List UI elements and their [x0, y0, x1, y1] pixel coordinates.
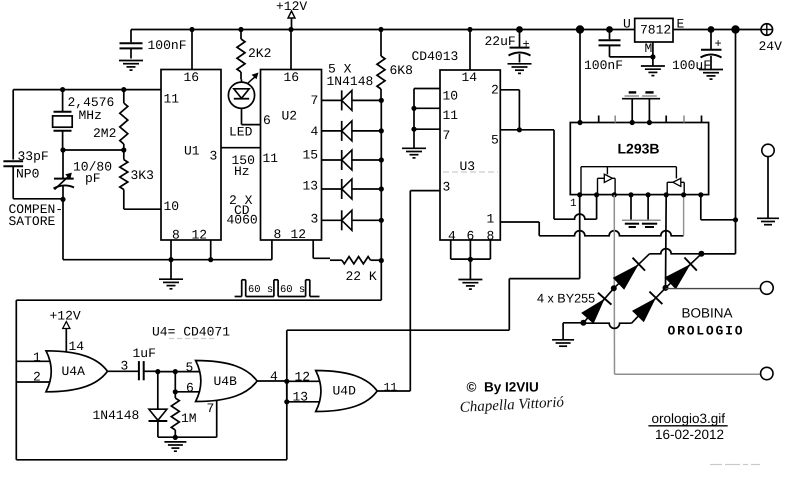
resistor R1 2M2	[123, 90, 125, 103]
trimmer capacitor CV1 10/80pF	[62, 150, 64, 179]
svg-text:2: 2	[491, 83, 499, 98]
svg-text:14: 14	[69, 339, 85, 354]
svg-text:6: 6	[263, 113, 271, 128]
IC 7812 regulator box	[635, 18, 673, 42]
wire U4A output	[108, 370, 139, 372]
junction bridge node B	[663, 285, 669, 291]
svg-text:1: 1	[487, 212, 495, 227]
svg-text:NP0: NP0	[16, 167, 39, 182]
capacitor C1 100nF	[130, 30, 132, 43]
ground (bridge)	[552, 339, 574, 341]
svg-text:6: 6	[186, 381, 194, 396]
pin stub L293B top (gray)	[614, 116, 616, 123]
svg-text:22uF: 22uF	[485, 34, 516, 49]
waveform 60s pulses	[235, 296, 242, 298]
L293B internal wiring	[581, 166, 676, 168]
svg-text:4: 4	[448, 229, 456, 244]
diode D5 1N4148	[322, 188, 342, 190]
wire 33pF bottom to trimmer bottom	[13, 198, 63, 200]
svg-text:U4= CD4071: U4= CD4071	[152, 325, 230, 340]
wire L293B pin1 input route	[579, 195, 581, 279]
svg-text:8: 8	[274, 227, 282, 242]
svg-text:BOBINA: BOBINA	[682, 306, 733, 321]
svg-text:100nF: 100nF	[148, 38, 187, 53]
svg-text:16: 16	[184, 70, 200, 85]
wire diode column	[380, 100, 382, 260]
wire bridge node A to terminal (gray)	[615, 373, 761, 375]
svg-text:orologio3.gif: orologio3.gif	[652, 411, 726, 426]
ground (C3)	[508, 63, 532, 65]
ground (bus)	[170, 260, 172, 279]
wire U4A pin2 lead	[15, 361, 17, 460]
wire 7812 M pin	[652, 42, 654, 66]
wire 3K3 to U1 pin10	[124, 208, 161, 210]
node B wire (crystal bottom row)	[63, 149, 124, 151]
svg-text:1: 1	[33, 350, 41, 365]
svg-text:11: 11	[384, 382, 398, 395]
junction C6 out	[155, 369, 160, 374]
or-gate U4B	[196, 361, 258, 402]
svg-text:60 s: 60 s	[280, 284, 305, 296]
svg-text:3: 3	[443, 180, 451, 195]
crystal X1 2,4576MHz	[62, 90, 64, 112]
svg-text:pF: pF	[85, 171, 101, 186]
svg-text:10: 10	[443, 89, 459, 104]
diode D4 1N4148	[322, 159, 342, 161]
svg-text:16: 16	[284, 70, 300, 85]
svg-text:1N4148: 1N4148	[327, 74, 374, 89]
ground (U3 bottom)	[469, 259, 471, 278]
wire U1 pin16 to +12V	[191, 30, 193, 70]
svg-text:1: 1	[570, 198, 577, 210]
svg-text:Hz: Hz	[234, 164, 250, 179]
svg-text:10: 10	[164, 199, 180, 214]
wire U4B output	[257, 380, 287, 382]
svg-text:3: 3	[311, 212, 319, 227]
svg-text:60 s: 60 s	[248, 284, 273, 296]
capacitor C5 100uF	[708, 26, 715, 33]
svg-text:2M2: 2M2	[93, 126, 116, 141]
svg-text:11: 11	[263, 151, 279, 166]
svg-text:4: 4	[311, 124, 319, 139]
wire L293B out to bridge node B	[665, 195, 668, 288]
or-gate U4D	[316, 371, 378, 412]
diode D2 1N4148	[322, 99, 342, 101]
underline orologio3.gif	[648, 425, 727, 427]
wire U4A pin1 lead	[15, 300, 17, 361]
double ground below L293B	[622, 219, 661, 221]
ground (C1)	[119, 60, 143, 62]
svg-text:12: 12	[192, 228, 208, 243]
diode D7 BY255	[583, 288, 613, 323]
wire node B to terminal	[665, 287, 667, 290]
svg-text:SATORE: SATORE	[9, 214, 56, 229]
resistor R4 6K8	[380, 30, 382, 57]
capacitor C4 100nF	[606, 26, 613, 33]
gray dashes bottom right	[710, 464, 722, 466]
svg-text:4: 4	[270, 369, 278, 384]
wire U3 pin3 to U4D output	[410, 190, 440, 192]
wire L293B Vss pin to +12V rail	[576, 25, 584, 33]
wire U1 pin12 to bus	[210, 240, 212, 260]
svg-text:13: 13	[303, 179, 319, 194]
wire U3 pin5 to L293B pin2	[500, 129, 554, 131]
diode D6 1N4148	[322, 219, 342, 221]
power arrow +12V (top rail)	[288, 11, 295, 18]
svg-text:22 K: 22 K	[346, 269, 377, 284]
svg-text:12: 12	[295, 370, 311, 385]
svg-text:100nF: 100nF	[584, 58, 623, 73]
wire U3 pin14 to +12V	[469, 30, 471, 71]
ground (terminal1)	[757, 217, 779, 219]
svg-text:8: 8	[172, 228, 180, 243]
svg-text:U4A: U4A	[62, 364, 86, 379]
svg-text:MHz: MHz	[79, 108, 102, 123]
svg-text:CD4013: CD4013	[412, 49, 459, 64]
junction L293B top pins	[577, 120, 582, 125]
resistor R5 22K	[330, 259, 342, 261]
ground (C5)	[699, 69, 723, 71]
svg-text:U2: U2	[282, 109, 298, 124]
buffer 1 inside L293B	[598, 177, 605, 179]
wire U3 pin2 to pin5	[500, 89, 519, 91]
svg-text:100uF: 100uF	[672, 58, 711, 73]
power arrow +12V (U4A pin14)	[63, 322, 70, 329]
junction bridge node A	[611, 285, 617, 291]
svg-text:L293B: L293B	[618, 141, 660, 157]
LED arrow (D1)	[248, 76, 258, 84]
svg-text:2: 2	[33, 370, 41, 385]
svg-text:4060: 4060	[227, 213, 258, 228]
wire U3 pins 4/6/8 tie	[450, 240, 452, 259]
LED D1	[228, 82, 254, 108]
terminal coil bottom	[761, 367, 773, 379]
svg-text:7812: 7812	[640, 23, 671, 38]
junction 22K node	[379, 258, 384, 263]
wire U1 pin8 to bus	[170, 240, 172, 260]
node A wire (U1.11 row)	[13, 89, 161, 91]
diode D10 BY255	[666, 254, 702, 288]
wire U4D inputs tie	[286, 381, 288, 402]
svg-text:1uF: 1uF	[133, 346, 156, 361]
or-gate U4A	[46, 351, 108, 392]
wire U3 pins 10/11/7 tie	[414, 88, 440, 90]
svg-text:M: M	[645, 41, 653, 56]
svg-text:3: 3	[121, 359, 129, 374]
pin stub L293B top (black)	[598, 116, 600, 123]
IC U3 CD4013 box	[440, 70, 500, 240]
wire U4D output	[378, 390, 411, 392]
wire +24V to diode bridge top	[701, 253, 735, 255]
wire U2 pin16 to +12V	[290, 30, 292, 70]
svg-text:5: 5	[491, 133, 499, 148]
wire LED to U2 pin6	[241, 108, 243, 124]
svg-text:2K2: 2K2	[248, 46, 271, 61]
svg-text:U: U	[623, 17, 631, 32]
IC U1 CD4060 box	[161, 70, 221, 241]
svg-text:+12V: +12V	[50, 309, 81, 324]
diode D9 BY255	[636, 288, 666, 319]
terminal coil top	[762, 144, 774, 156]
wire L293B gnd pins to double ground	[630, 195, 632, 220]
svg-text:OROLOGIO: OROLOGIO	[668, 324, 745, 339]
wire U4B gnd row	[158, 436, 217, 438]
diode D8 BY255	[614, 254, 650, 288]
svg-text:16-02-2012: 16-02-2012	[655, 427, 724, 442]
svg-text:12: 12	[291, 227, 307, 242]
wire +12V rail (top)	[131, 29, 635, 31]
wire +24V rail (7812 output to 24V terminal)	[673, 29, 761, 31]
wire bridge gnd node to ground	[563, 322, 583, 324]
svg-text:+: +	[715, 37, 722, 51]
resistor R2 3K3	[123, 150, 125, 160]
svg-text:24V: 24V	[759, 39, 783, 54]
junction L293B bottom pins	[577, 192, 582, 197]
wire U2 pin12 to 22K	[312, 240, 314, 258]
svg-text:6K8: 6K8	[390, 63, 413, 78]
capacitor pair above L293B	[629, 91, 637, 93]
wire U1 pin3 to U2 pin11	[221, 147, 261, 149]
svg-text:7: 7	[311, 93, 319, 108]
capacitor C3 22uF	[516, 26, 523, 33]
svg-text:1N4148: 1N4148	[93, 408, 140, 423]
junction bridge ground node	[580, 320, 586, 326]
svg-text:© By I2VIU: © By I2VIU	[467, 380, 539, 395]
wire left branch down to 33pF	[12, 90, 14, 160]
svg-text:15: 15	[303, 148, 319, 163]
diode D11 1N4148	[157, 372, 159, 409]
capacitor C6 1uF	[138, 361, 140, 380]
svg-text:3: 3	[210, 149, 218, 164]
junction trimmer bottom	[60, 197, 65, 202]
gray dashes under U4 label	[169, 338, 216, 340]
wire ground bus (left)	[63, 259, 272, 261]
resistor R6 1M	[174, 392, 176, 398]
gray dashes inside U3	[443, 171, 498, 173]
svg-text:11: 11	[164, 92, 180, 107]
svg-text:5: 5	[186, 360, 194, 375]
wire C6 to U4B inputs	[158, 371, 176, 373]
svg-text:E: E	[677, 17, 685, 32]
svg-text:7: 7	[207, 401, 215, 416]
svg-text:U4D: U4D	[333, 384, 357, 399]
wire feedback bottom loop	[16, 459, 287, 461]
IC U2 CD4060 box	[261, 70, 322, 241]
svg-text:33pF: 33pF	[18, 149, 49, 164]
ground (U3 left)	[402, 147, 426, 149]
resistor R3 2K2	[240, 30, 242, 40]
junction bridge +24V node	[698, 251, 704, 257]
wire gnd node to chain B (hop down)	[583, 323, 631, 328]
svg-text:U4B: U4B	[214, 374, 238, 389]
wire U3 pin1 to L293B (wavy)	[500, 221, 539, 223]
terminal coil mid	[760, 282, 773, 295]
capacitor C2 33pF	[3, 160, 23, 162]
svg-text:1M: 1M	[181, 411, 197, 426]
diode D3 1N4148	[322, 130, 342, 132]
svg-text:11: 11	[443, 108, 459, 123]
wire L293B Vs pin to +24V	[700, 195, 702, 220]
svg-text:3K3: 3K3	[131, 168, 154, 183]
ground (7812 M)	[641, 65, 665, 67]
wire 22K node down-left (to U4A.1)	[380, 261, 382, 301]
wire L293B out to bridge node A (gray)	[613, 195, 615, 288]
terminal 24V input	[761, 24, 773, 36]
wire trimmer to ground bus	[62, 199, 64, 259]
buffer 2 inside L293B	[683, 182, 685, 194]
IC L293B box	[570, 123, 708, 195]
ground (U4B row)	[164, 441, 186, 443]
svg-text:U1: U1	[184, 144, 200, 159]
svg-text:+: +	[523, 38, 530, 52]
svg-text:13: 13	[293, 390, 309, 405]
svg-text:7: 7	[443, 128, 451, 143]
wire chain A top to +24V node	[650, 249, 736, 254]
wire gray riser L293B pin to wavy	[683, 195, 685, 236]
wire +24V down to L293B Vs	[731, 25, 739, 33]
wire terminal1 to ground	[767, 157, 769, 218]
svg-text:14: 14	[462, 70, 478, 85]
svg-text:4 x BY255: 4 x BY255	[537, 292, 595, 306]
svg-text:LED: LED	[229, 125, 253, 140]
